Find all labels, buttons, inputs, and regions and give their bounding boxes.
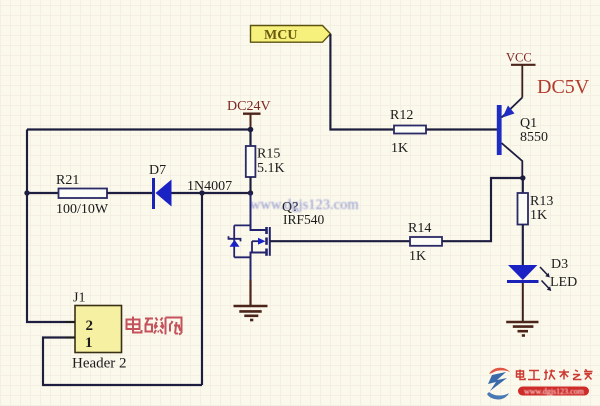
wire R12 to Q1 base <box>426 128 497 130</box>
ground under LED <box>506 322 538 336</box>
connector J1 Header 2 <box>72 291 127 372</box>
wire R21 left lead <box>27 192 59 194</box>
svg-text:1K: 1K <box>530 208 547 223</box>
wire collector node to R13 <box>522 178 524 193</box>
wire R13 to LED <box>522 225 524 266</box>
pin 2 stub <box>66 321 75 323</box>
diode D3 LED <box>507 257 577 291</box>
resistor R12 <box>394 126 426 134</box>
diode D7 1N4007 <box>149 163 232 209</box>
resistor R21 <box>59 189 108 199</box>
resistor R13 <box>518 193 529 225</box>
body diode of Q2 <box>233 225 235 257</box>
node junction dot DC24V <box>248 127 254 133</box>
wire DC24V node to R15 <box>249 130 251 147</box>
wire MCU down to R12 <box>330 34 394 130</box>
svg-text:IRF540: IRF540 <box>283 212 325 227</box>
svg-text:Header 2: Header 2 <box>72 356 127 372</box>
svg-text:www.dgjs123.com: www.dgjs123.com <box>524 387 585 396</box>
svg-text:2: 2 <box>86 318 94 334</box>
wire top rail from left column to DC24V node <box>27 128 251 130</box>
wire gate to R14 <box>270 240 410 242</box>
svg-text:DC24V: DC24V <box>227 99 271 114</box>
sheet entry MCU <box>251 26 331 44</box>
transistor Q2 IRF540 mosfet <box>229 193 325 280</box>
node junction dot collector <box>520 175 525 180</box>
wire R14 up to collector node <box>442 178 523 241</box>
svg-text:VCC: VCC <box>506 51 532 65</box>
logo text dian gong ji shu zhi jia <box>517 370 593 380</box>
wire vertical drop to bottom loop <box>201 193 203 385</box>
logo mark bottom right <box>487 368 510 400</box>
svg-text:www.dgjs123.com: www.dgjs123.com <box>250 197 359 213</box>
svg-text:100/10W: 100/10W <box>56 202 109 217</box>
node junction dot drain <box>248 190 253 195</box>
pin 1 stub <box>66 337 75 339</box>
wire bottom loop to J1 pin1 <box>43 338 202 386</box>
wire left column down to J1 pin2 <box>27 130 75 323</box>
svg-text:8550: 8550 <box>520 130 548 145</box>
wire D7 to node <box>172 192 251 194</box>
svg-text:1: 1 <box>85 335 93 351</box>
svg-text:D3: D3 <box>551 257 568 272</box>
svg-text:1K: 1K <box>409 249 426 264</box>
svg-text:Q1: Q1 <box>520 116 537 131</box>
svg-text:R21: R21 <box>56 173 79 188</box>
svg-text:LED: LED <box>550 275 577 290</box>
logo banner www.dgjs123.com <box>518 387 589 397</box>
svg-text:R14: R14 <box>408 221 431 236</box>
svg-text:1N4007: 1N4007 <box>187 179 232 194</box>
svg-text:R13: R13 <box>530 194 553 209</box>
svg-text:J1: J1 <box>73 291 85 306</box>
svg-text:R15: R15 <box>257 147 280 162</box>
node junction dot D7 / J1 drop <box>199 190 204 195</box>
resistor R15 <box>246 146 256 177</box>
resistor R14 <box>410 237 442 246</box>
wire LED to ground <box>522 283 524 322</box>
transistor Q1 8550 <box>497 98 548 179</box>
power VCC symbol <box>506 51 536 98</box>
ground under mosfet <box>234 280 268 320</box>
power DC24V symbol <box>227 99 271 130</box>
svg-text:R12: R12 <box>390 108 413 123</box>
svg-text:5.1K: 5.1K <box>257 161 285 176</box>
svg-text:MCU: MCU <box>264 28 297 43</box>
wire R15 to drain node <box>249 177 251 193</box>
label dianciva (solenoid valve) chinese <box>127 317 182 335</box>
svg-text:DC5V: DC5V <box>537 76 590 98</box>
node A junction dot left rail / R21 <box>24 190 29 195</box>
wire R21 to D7 <box>107 192 153 194</box>
svg-text:D7: D7 <box>149 163 166 178</box>
svg-text:1K: 1K <box>391 141 408 156</box>
